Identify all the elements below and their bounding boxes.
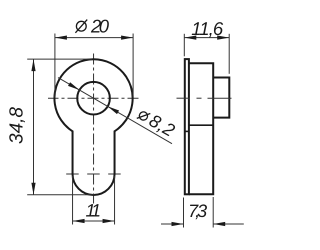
side view flange — [185, 59, 189, 194]
dim 11 arrow right — [103, 219, 115, 223]
dim 11.6 extension line left — [183, 34, 185, 57]
dim 7.3 extension line right — [212, 197, 214, 228]
dim 11 extension line left — [72, 176, 74, 225]
dim 11.6 arrow right — [217, 36, 229, 40]
dim 7.3 dimension line right segment — [213, 223, 244, 225]
dim d8.2 leader line — [58, 78, 172, 144]
dim d20 arrow right — [121, 36, 133, 40]
dim 34.8 arrow top — [31, 59, 35, 71]
side view horizontal centerline long dash left — [177, 97, 190, 99]
dim d20 dimension line — [55, 37, 133, 39]
dim 7.3 arrow right — [213, 222, 225, 226]
dim 11.6 arrow left — [184, 36, 196, 40]
bottom arc centerline — [66, 173, 121, 175]
dim 7.3 dimension line left segment — [161, 223, 184, 225]
dim d8.2 arrow upper-left — [68, 82, 79, 90]
dim 11 extension line right — [114, 176, 116, 225]
side view body tangent edge — [189, 124, 213, 126]
dim 7.3 arrow left — [172, 222, 184, 226]
dim d20 extension line left — [54, 34, 56, 98]
dim d20 extension line right — [132, 34, 134, 98]
dim d20 diameter symbol — [75, 20, 87, 33]
dim 34.8 extension line top — [27, 58, 92, 60]
dim 34.8 arrow bottom — [31, 183, 35, 195]
dim 11.6 extension line right — [228, 34, 230, 74]
svg-text:11: 11 — [86, 201, 102, 221]
dim 34.8 value text — [6, 107, 27, 144]
dim 11.6 dimension line — [184, 37, 229, 39]
front view vertical centerline — [93, 54, 95, 204]
side view flange tangent edge — [185, 130, 189, 132]
dim 7.3 extension line left — [183, 198, 185, 228]
dim 11 dimension line — [73, 220, 115, 222]
svg-text:7,3: 7,3 — [188, 201, 207, 221]
side view horizontal centerline short dash — [197, 97, 202, 99]
dim 34.8 dimension line — [33, 59, 35, 195]
svg-text:11,6: 11,6 — [191, 18, 224, 39]
svg-text:34,8: 34,8 — [6, 107, 27, 144]
dim d8.2 value text — [135, 104, 178, 141]
side view body — [189, 63, 213, 194]
hole circle d8.2 — [77, 82, 110, 115]
outer keyhole profile — [54, 59, 132, 195]
dim d8.2 arrow lower-right — [108, 106, 119, 114]
dim d20 arrow left — [55, 36, 67, 40]
svg-text:20: 20 — [90, 15, 110, 36]
side view boss — [213, 78, 229, 118]
dim 34.8 extension line bottom — [27, 194, 94, 196]
side view horizontal centerline long dash right — [208, 97, 232, 99]
front view horizontal centerline — [48, 97, 139, 99]
dim 11 arrow left — [73, 219, 85, 223]
